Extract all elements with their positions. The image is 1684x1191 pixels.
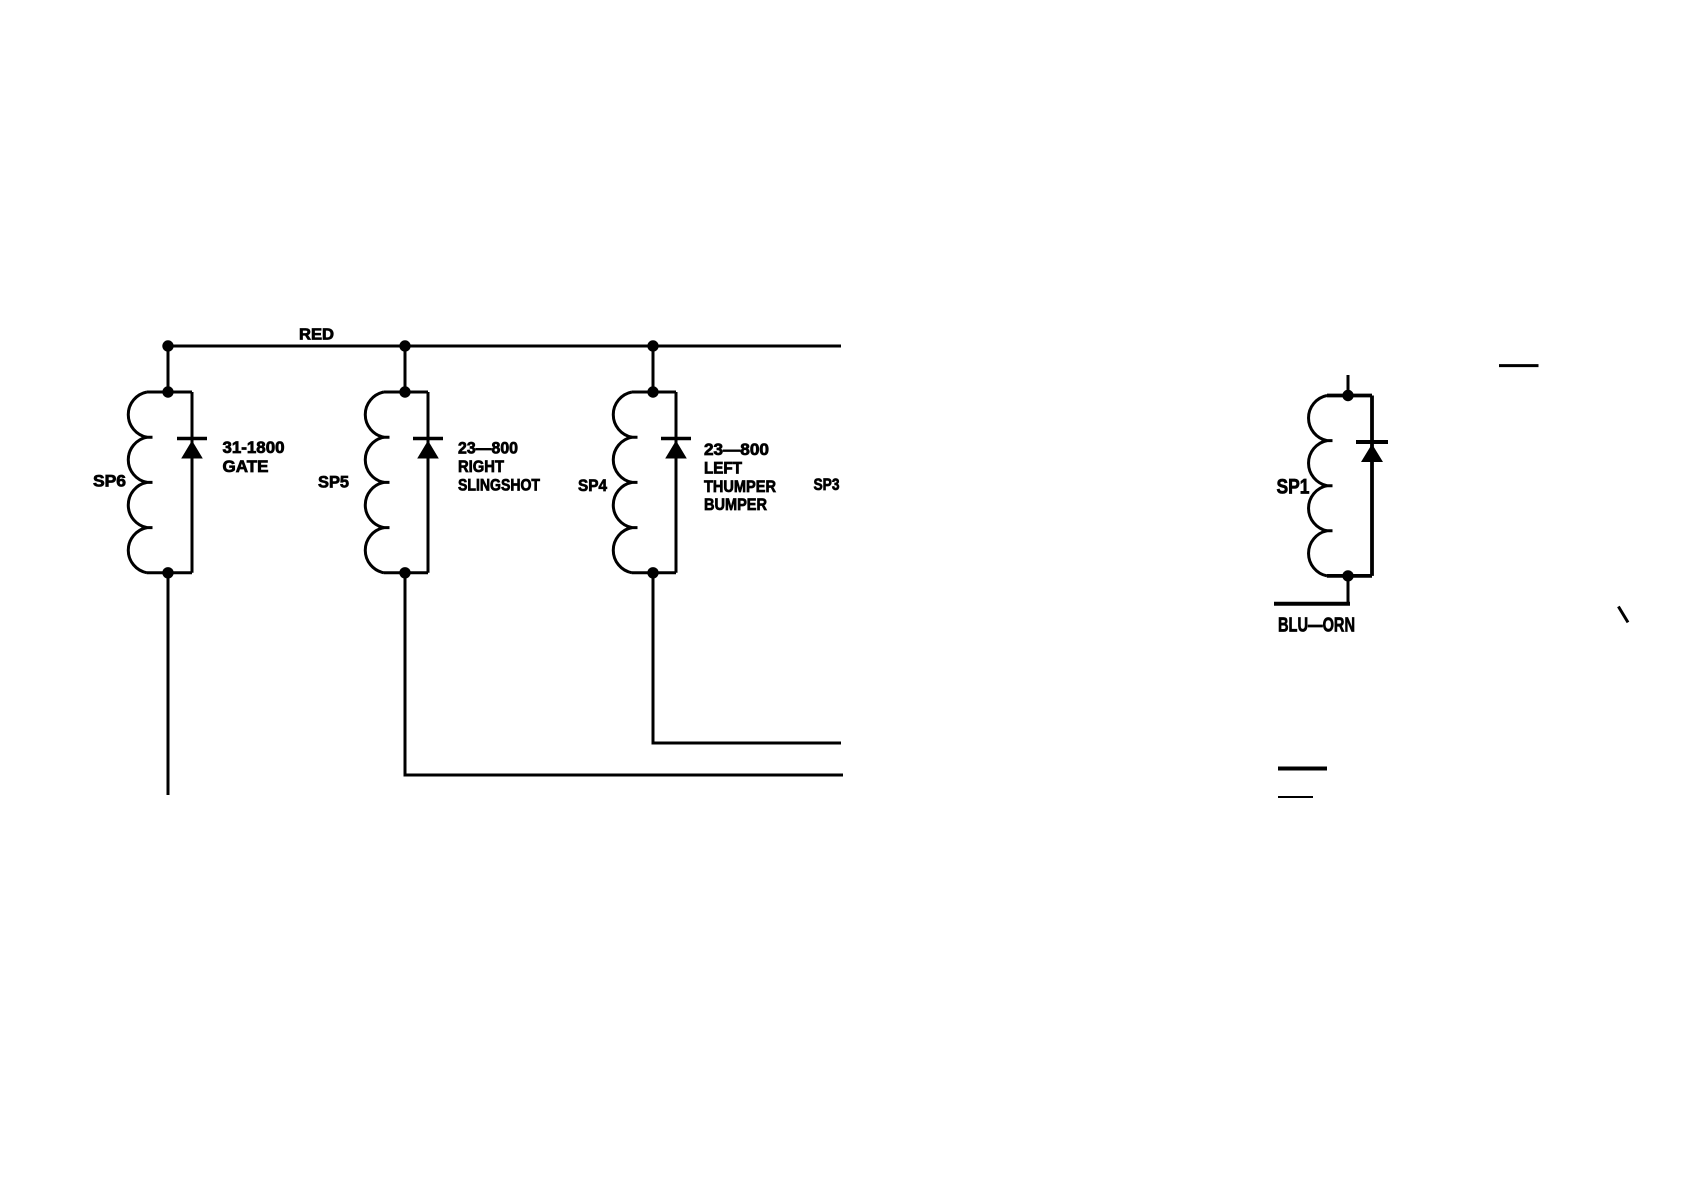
node dot SP1 coil bottom [1342, 570, 1353, 581]
svg-text:GATE: GATE [223, 458, 269, 476]
svg-text:RIGHT: RIGHT [458, 458, 504, 476]
stray wire fragment top right [1499, 364, 1539, 367]
wire SP1 top stub [1347, 375, 1350, 396]
diode D6 branch wire [191, 392, 194, 573]
stray wire fragment lower (thick) [1278, 767, 1327, 771]
diode D5 cathode bar [413, 437, 443, 441]
wire SP6 top stub [167, 346, 170, 392]
svg-text:31-1800: 31-1800 [223, 439, 285, 457]
diode D4 triangle [665, 441, 687, 459]
svg-text:23—800: 23—800 [458, 440, 518, 458]
inductor coil SP6 [128, 392, 192, 573]
svg-text:LEFT: LEFT [704, 460, 742, 478]
node dot SP1 coil top [1342, 390, 1353, 401]
diode D1 triangle [1361, 444, 1383, 462]
inductor coil SP5 [365, 392, 428, 573]
diode D6 triangle [181, 441, 203, 459]
svg-text:SP3: SP3 [814, 476, 840, 494]
diode D5 triangle [417, 441, 439, 459]
svg-text:BUMPER: BUMPER [704, 496, 767, 514]
node dot SP4 coil bottom [647, 567, 658, 578]
diode D1 branch wire [1370, 396, 1374, 576]
svg-text:23—800: 23—800 [704, 441, 769, 459]
junction dot SP5 / RED bus [399, 340, 410, 351]
svg-text:THUMPER: THUMPER [704, 478, 776, 496]
wire BLU-ORN lead (thick) [1274, 602, 1350, 606]
node dot SP6 coil top [162, 386, 173, 397]
diode D4 cathode bar [661, 437, 691, 441]
wire SP5 bottom lead with corner to right edge [405, 573, 843, 775]
svg-text:BLU—ORN: BLU—ORN [1278, 614, 1355, 637]
svg-text:SP4: SP4 [578, 477, 608, 495]
junction dot SP6 / RED bus [162, 340, 173, 351]
node dot SP5 coil top [399, 386, 410, 397]
wire SP4 bottom lead with corner to right edge [653, 573, 841, 743]
svg-text:SP1: SP1 [1277, 476, 1310, 499]
diode D6 cathode bar [177, 437, 207, 441]
diode D4 branch wire [675, 392, 678, 573]
stray diagonal mark [1618, 607, 1628, 623]
stray wire fragment lower (thin) [1278, 796, 1313, 798]
diode D1 cathode bar [1356, 440, 1388, 444]
svg-text:SP6: SP6 [93, 473, 126, 491]
wire SP4 top stub [652, 346, 655, 392]
node dot SP5 coil bottom [399, 567, 410, 578]
wire RED bus (node RED) [168, 345, 841, 348]
junction dot SP4 / RED bus [647, 340, 658, 351]
inductor coil SP1 [1309, 396, 1372, 576]
wire SP5 top stub [404, 346, 407, 392]
node dot SP4 coil top [647, 386, 658, 397]
node dot SP6 coil bottom [162, 567, 173, 578]
svg-text:SLINGSHOT: SLINGSHOT [458, 477, 540, 495]
inductor coil SP4 [613, 392, 676, 573]
diode D5 branch wire [427, 392, 430, 573]
svg-text:SP5: SP5 [318, 474, 349, 492]
wire SP6 bottom lead [167, 573, 170, 795]
wire SP1 bottom lead [1347, 576, 1350, 602]
svg-text:RED: RED [299, 327, 334, 344]
